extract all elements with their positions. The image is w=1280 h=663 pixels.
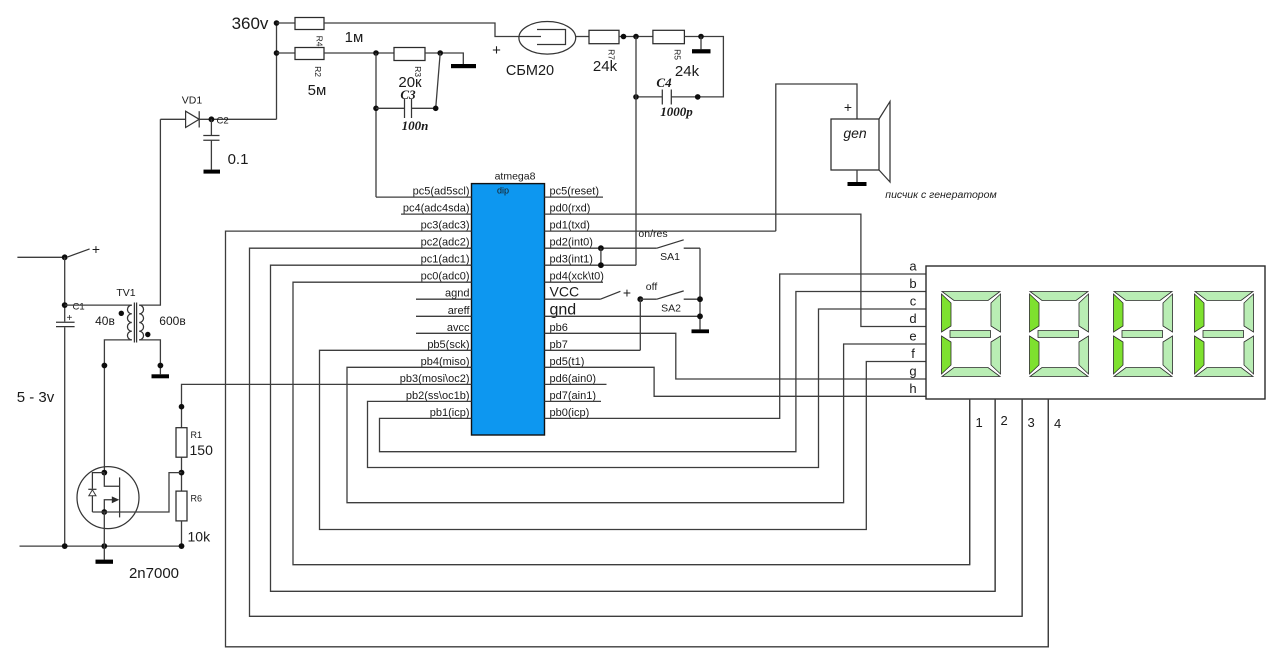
- wire pc2(adc2) loop to display col3: [250, 248, 1023, 616]
- pin labels right: [550, 186, 604, 419]
- phase dot secondary: [145, 332, 150, 337]
- node dot C2: [209, 116, 215, 122]
- svg-text:pd1(txd): pd1(txd): [550, 220, 590, 232]
- svg-text:areff: areff: [448, 305, 471, 317]
- node dot rail R6: [179, 543, 185, 549]
- node junction dot 360v row2: [274, 50, 280, 56]
- source stub with arrow: [104, 500, 113, 512]
- wire pc3(adc3) loop to display col4: [226, 231, 1049, 647]
- svg-text:pb1(icp): pb1(icp): [430, 407, 470, 419]
- svg-text:pb5(sck): pb5(sck): [427, 339, 469, 351]
- IC U1 atmega8: [472, 171, 545, 436]
- svg-text:4: 4: [1054, 416, 1061, 431]
- wire pd5(t1) to display row h: [545, 367, 927, 396]
- resistor R1: [176, 428, 213, 458]
- wire battery riser to pb7: [639, 299, 641, 350]
- wire R1 to R6: [181, 457, 183, 491]
- svg-text:писчик с генератором: писчик с генератором: [885, 189, 996, 201]
- resistor R2: [295, 48, 324, 60]
- wire pd1 to speaker: [776, 84, 857, 231]
- node dot C1 top: [62, 302, 68, 308]
- svg-text:pb7: pb7: [550, 339, 568, 351]
- svg-text:agnd: agnd: [445, 288, 469, 300]
- wire secondary top to VD1: [139, 119, 160, 305]
- svg-text:VCC: VCC: [550, 284, 580, 300]
- display row labels: [909, 259, 917, 397]
- resistor R7: [589, 30, 619, 43]
- svg-text:pb4(miso): pb4(miso): [421, 356, 470, 368]
- speaker gen box: [831, 99, 997, 201]
- node dot C4 right: [695, 94, 701, 100]
- wire pd2(int0): [545, 247, 657, 249]
- svg-text:+: +: [92, 241, 100, 257]
- svg-text:C4: C4: [656, 75, 672, 90]
- svg-text:pd2(int0): pd2(int0): [550, 237, 593, 249]
- node dot gnd: [697, 313, 703, 319]
- node dot pd3: [598, 262, 604, 268]
- ground near R5: [700, 37, 702, 50]
- wire pb1(icp) loop to display row b: [380, 292, 927, 452]
- svg-text:R4: R4: [315, 36, 325, 47]
- node dot R1-R6 junction: [179, 470, 185, 476]
- svg-text:R1: R1: [191, 430, 203, 440]
- node junction dot C3 left: [373, 106, 379, 112]
- svg-text:off: off: [646, 281, 658, 293]
- display column labels: [976, 413, 1062, 431]
- phase dot primary: [119, 311, 124, 316]
- wire avcc stub: [416, 332, 472, 334]
- wire battery bus down: [64, 257, 66, 546]
- svg-text:SA2: SA2: [661, 303, 681, 315]
- node junction dot R2-R3: [373, 50, 379, 56]
- node dot above R1: [179, 404, 185, 410]
- svg-text:pc2(adc2): pc2(adc2): [421, 237, 470, 249]
- svg-text:pd3(int1): pd3(int1): [550, 254, 593, 266]
- svg-text:3: 3: [1028, 415, 1035, 430]
- wire pc1(adc1) loop to display col2: [271, 265, 996, 591]
- wire pd6(ain0) stub: [545, 383, 607, 385]
- svg-text:150: 150: [190, 442, 214, 458]
- capacitor C3: [376, 53, 440, 133]
- node dot R5 right: [698, 34, 704, 40]
- svg-text:dip: dip: [497, 186, 509, 196]
- ground below source: [103, 546, 105, 560]
- node junction dot 360v top: [274, 20, 280, 26]
- svg-text:c: c: [910, 294, 917, 309]
- node junction dot R3 right: [437, 50, 443, 56]
- svg-text:+: +: [844, 99, 852, 115]
- body diode loop: [92, 473, 104, 512]
- svg-text:R5: R5: [673, 49, 683, 60]
- svg-text:600в: 600в: [159, 314, 185, 328]
- wire SA1 to ground bus: [699, 248, 701, 329]
- svg-text:pb2(ss\oc1b): pb2(ss\oc1b): [406, 390, 470, 402]
- switch SA2 with battery plus: [600, 281, 700, 315]
- svg-text:pc4(adc4sda): pc4(adc4sda): [403, 203, 470, 215]
- svg-text:e: e: [909, 329, 916, 344]
- wire pb3(mosi\oc2) to R1: [182, 384, 472, 427]
- wire VCC pin: [545, 298, 601, 300]
- wire pd7(ain1) stub: [545, 400, 602, 402]
- display digit 1: [942, 292, 1001, 377]
- switch battery arm: [68, 249, 90, 257]
- resistor R5: [653, 30, 685, 43]
- svg-text:avcc: avcc: [447, 322, 470, 334]
- display module box: [926, 266, 1265, 399]
- wire R2 to R3: [324, 52, 394, 54]
- geiger tube СБМ20: [492, 22, 589, 80]
- svg-text:pc0(adc0): pc0(adc0): [421, 271, 470, 283]
- switch SA1: [638, 228, 700, 263]
- node dot battery: [62, 254, 68, 260]
- svg-text:d: d: [909, 311, 916, 326]
- svg-text:pd0(rxd): pd0(rxd): [550, 203, 591, 215]
- wire R5 right loop: [672, 37, 724, 97]
- wire areff stub: [416, 315, 472, 317]
- svg-text:R2: R2: [313, 66, 323, 77]
- source dot: [101, 509, 107, 515]
- svg-text:atmega8: atmega8: [495, 171, 536, 183]
- svg-text:0.1: 0.1: [228, 151, 249, 168]
- drain stub: [104, 473, 119, 487]
- wire pd0(rxd) to display row d: [545, 214, 927, 326]
- wire pc5(ad5scl) riser: [375, 53, 377, 197]
- resistor R4: [295, 18, 324, 30]
- svg-text:+: +: [67, 313, 73, 324]
- wire pc4(adc4sda) stub: [401, 213, 472, 215]
- svg-text:pd7(ain1): pd7(ain1): [550, 390, 596, 402]
- node dot secondary gnd: [158, 363, 164, 369]
- svg-text:360v: 360v: [232, 14, 269, 33]
- wire pb0(icp) to display row a: [545, 274, 927, 418]
- primary winding: [127, 305, 131, 340]
- svg-text:pb3(mosi\oc2): pb3(mosi\oc2): [400, 373, 470, 385]
- svg-text:1: 1: [976, 415, 983, 430]
- node dot primary drop: [102, 363, 108, 369]
- svg-text:1м: 1м: [345, 29, 364, 46]
- svg-text:C3: C3: [400, 87, 416, 102]
- svg-text:pd5(t1): pd5(t1): [550, 356, 585, 368]
- source down to rail: [103, 512, 105, 546]
- svg-text:pc5(reset): pc5(reset): [550, 186, 600, 198]
- svg-text:2n7000: 2n7000: [129, 565, 179, 582]
- wire primary bottom to drain: [104, 340, 131, 473]
- transistor Q1 2n7000: [77, 467, 182, 582]
- node dot C4 branch top: [633, 34, 639, 40]
- svg-text:40в: 40в: [95, 314, 115, 328]
- wire pd1(txd): [545, 230, 776, 232]
- wire link pd2-pd3: [600, 248, 602, 265]
- transformer TV1: [95, 287, 186, 343]
- svg-text:1000p: 1000p: [660, 104, 693, 119]
- svg-text:C1: C1: [73, 302, 85, 313]
- capacitor C4: [633, 75, 693, 119]
- svg-text:SA1: SA1: [660, 251, 680, 263]
- wire display col1: [969, 399, 971, 565]
- channel bar: [119, 477, 121, 517]
- wire pb5(sck) loop to display row f: [320, 350, 927, 529]
- svg-text:g: g: [909, 364, 916, 379]
- resistor R6: [176, 491, 211, 544]
- svg-text:5 - 3v: 5 - 3v: [17, 389, 55, 406]
- svg-text:24k: 24k: [593, 58, 618, 75]
- display digit 4: [1195, 292, 1254, 377]
- svg-text:+: +: [623, 285, 631, 301]
- svg-text:pc3(adc3): pc3(adc3): [421, 220, 470, 232]
- ground under gen: [856, 170, 858, 182]
- wire pc5(ad5scl): [376, 196, 472, 198]
- wire display col2: [994, 399, 996, 591]
- svg-text:24k: 24k: [675, 63, 700, 80]
- svg-text:h: h: [909, 381, 916, 396]
- ground symbol TV1: [152, 374, 170, 378]
- battery input wire: [17, 256, 64, 258]
- capacitor C1: [56, 302, 85, 327]
- display digit 2: [1030, 292, 1089, 377]
- svg-text:f: f: [911, 346, 915, 361]
- wire agnd stub: [416, 298, 472, 300]
- wire R4 to tube anode: [324, 23, 519, 37]
- wire display col3: [1021, 399, 1023, 616]
- svg-text:R6: R6: [191, 494, 203, 504]
- wire 360v vertical bus: [276, 23, 278, 119]
- wire pc5(reset) stub: [545, 196, 604, 198]
- wire pc0(adc0) loop to display col1: [293, 282, 970, 565]
- svg-text:pd6(ain0): pd6(ain0): [550, 373, 596, 385]
- wire R3 to ground: [425, 53, 463, 64]
- svg-text:on/res: on/res: [638, 228, 667, 240]
- ground symbol SA bus: [692, 329, 710, 333]
- diode VD1: [160, 95, 276, 128]
- svg-text:a: a: [909, 259, 917, 274]
- svg-text:pc1(adc1): pc1(adc1): [421, 254, 470, 266]
- wire R6 to rail: [181, 521, 183, 546]
- wire pb6 to display row g: [545, 333, 927, 379]
- resistor R3: [394, 48, 425, 61]
- gate line to R1-R6 junction: [92, 473, 181, 512]
- svg-text:СБМ20: СБМ20: [506, 63, 554, 79]
- ground near R3: [451, 64, 476, 68]
- node dot pd2: [598, 245, 604, 251]
- wire pulse node down to pd3: [635, 37, 637, 266]
- svg-text:VD1: VD1: [182, 95, 203, 107]
- svg-text:pd4(xck\t0): pd4(xck\t0): [550, 271, 604, 283]
- svg-text:10k: 10k: [188, 529, 212, 545]
- wire pb7: [545, 349, 641, 351]
- wire row2 to R2: [277, 52, 296, 54]
- svg-text:pc5(ad5scl): pc5(ad5scl): [413, 186, 470, 198]
- wire top rail to R4: [277, 22, 296, 24]
- svg-text:b: b: [909, 276, 916, 291]
- secondary winding: [139, 305, 143, 340]
- wire display col4: [1047, 399, 1049, 647]
- node dot rail C1: [62, 543, 68, 549]
- speaker cone: [879, 102, 890, 183]
- wire pd3(int1): [545, 264, 637, 266]
- svg-text:100n: 100n: [402, 118, 429, 133]
- svg-text:pb0(icp): pb0(icp): [550, 407, 590, 419]
- svg-text:gen: gen: [843, 125, 867, 141]
- wire secondary bottom to ground: [139, 340, 160, 374]
- svg-text:2: 2: [1001, 413, 1008, 428]
- wire pd4(xck\t0) stub: [545, 281, 604, 283]
- drain dot: [101, 470, 107, 476]
- wire R7 to R5: [619, 36, 653, 38]
- svg-text:C2: C2: [217, 116, 229, 127]
- node dot R7 out: [621, 34, 627, 40]
- svg-text:5м: 5м: [308, 82, 327, 99]
- display digit 3: [1114, 292, 1173, 377]
- bottom rail: [20, 545, 182, 547]
- capacitor C2: [203, 116, 248, 174]
- svg-text:pb6: pb6: [550, 322, 568, 334]
- node dot rail source: [101, 543, 107, 549]
- core: [134, 303, 136, 343]
- pin labels left: [400, 186, 471, 419]
- wire gnd pin: [545, 315, 701, 317]
- wire pb4(miso) loop to display row e: [347, 344, 926, 503]
- wire pb2(ss\oc1b) loop to display row c: [368, 309, 927, 468]
- svg-text:+: +: [492, 42, 501, 59]
- svg-text:TV1: TV1: [116, 287, 135, 299]
- node dot SA2 right: [697, 296, 703, 302]
- wire C1 node to TV1 primary: [65, 304, 132, 306]
